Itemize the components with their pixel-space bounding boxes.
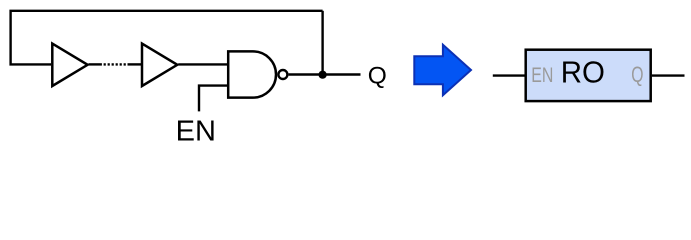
NAND gate U3 inversion bubble xyxy=(278,70,287,79)
wire feedback loop (top + left + into buffer 1) xyxy=(11,11,323,65)
wire buffer2 to NAND top input xyxy=(178,63,228,65)
wire into RO block EN pin xyxy=(493,74,525,76)
NAND gate U3 body xyxy=(228,51,276,97)
svg-text:Q: Q xyxy=(631,63,643,88)
svg-text:EN: EN xyxy=(176,115,216,147)
wire buffer1 output xyxy=(89,63,102,65)
node junction on output xyxy=(319,71,327,79)
svg-text:EN: EN xyxy=(531,64,553,88)
wire vertical feedback from junction xyxy=(321,11,323,75)
wire into buffer 2 xyxy=(128,63,143,65)
arrow (implies abstraction) xyxy=(414,45,471,96)
RO block body xyxy=(526,50,651,101)
buffer U2 xyxy=(142,44,177,86)
wire NAND output to Q xyxy=(289,73,361,75)
svg-text:RO: RO xyxy=(561,56,605,90)
buffer U1 xyxy=(52,44,87,86)
wire from RO block Q pin xyxy=(652,74,685,76)
svg-text:Q: Q xyxy=(368,63,387,90)
wire EN input to NAND bottom input xyxy=(199,86,228,112)
wire dotted continuation xyxy=(104,63,127,65)
